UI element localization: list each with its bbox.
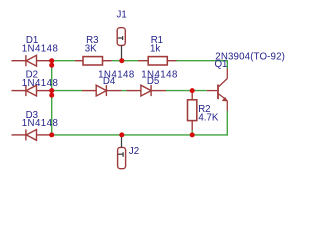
wire bottom row bbox=[52, 134, 228, 136]
diode D3 bbox=[12, 129, 52, 140]
node J2 bbox=[119, 132, 124, 137]
connector J1 body bbox=[117, 28, 125, 46]
svg-text:D4: D4 bbox=[103, 76, 116, 87]
resistor R3 bbox=[75, 57, 112, 65]
wire R2 bottom stub bbox=[191, 130, 193, 135]
svg-text:D5: D5 bbox=[147, 76, 159, 87]
node J1 bbox=[119, 58, 124, 63]
diode D4 bbox=[82, 85, 121, 96]
wire row1 mid bbox=[112, 60, 138, 62]
node R2 top bbox=[190, 88, 195, 93]
svg-text:1k: 1k bbox=[150, 43, 160, 54]
wire vertical bus bbox=[51, 61, 53, 135]
svg-text:1N4148: 1N4148 bbox=[22, 118, 59, 129]
connector J2 pin and tick bbox=[118, 135, 123, 157]
connector J1 pin and tick bbox=[118, 36, 123, 61]
svg-text:1N4148: 1N4148 bbox=[22, 78, 59, 89]
svg-text:Q1: Q1 bbox=[215, 59, 228, 70]
wire row1 left bbox=[52, 60, 75, 62]
wire row2 left bbox=[52, 90, 82, 92]
wire row2 right bbox=[166, 90, 207, 92]
junction dots bbox=[49, 58, 195, 137]
svg-text:4.7K: 4.7K bbox=[198, 113, 218, 124]
node bus-row2 bbox=[49, 88, 54, 93]
diode D5 bbox=[127, 85, 167, 96]
node bus-row3 bbox=[49, 132, 54, 137]
svg-text:J2: J2 bbox=[129, 146, 139, 157]
resistor R2 bbox=[188, 91, 197, 131]
wire row1 right bbox=[177, 60, 228, 62]
node R2 bottom bbox=[190, 132, 195, 137]
node bus-row1 bbox=[49, 58, 54, 63]
svg-text:1N4148: 1N4148 bbox=[22, 44, 59, 55]
transistor Q1 bbox=[207, 69, 228, 111]
diode D2 bbox=[12, 85, 52, 96]
wire row2 between D4 D5 bbox=[121, 90, 126, 92]
svg-text:J1: J1 bbox=[117, 10, 127, 21]
resistor R1 bbox=[138, 57, 177, 65]
svg-text:3K: 3K bbox=[85, 43, 97, 54]
diode D1 bbox=[12, 55, 52, 66]
wire emitter drop bbox=[226, 111, 228, 136]
wire collector drop bbox=[226, 60, 228, 69]
connector J2 body bbox=[118, 147, 126, 168]
